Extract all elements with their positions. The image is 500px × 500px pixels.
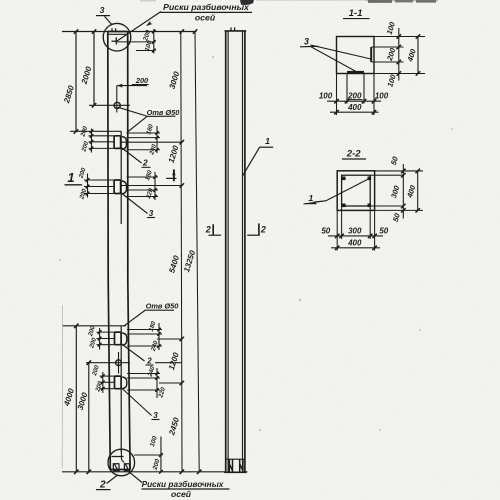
s11 dim row2 — [330, 111, 379, 113]
s22 ext bottom right — [375, 209, 423, 211]
axis riska tick top 1 — [111, 28, 113, 31]
leader plate3 lower — [121, 388, 152, 416]
side view bottom edge — [224, 471, 246, 473]
bottom detail circle — [108, 449, 135, 476]
overall dim 13250 line — [195, 32, 199, 472]
dim line top 200-100 — [153, 29, 155, 54]
svg-text:1-1: 1-1 — [349, 8, 363, 19]
dim 3000 line — [88, 363, 90, 472]
s11 ext right a — [372, 46, 404, 48]
ext line plateB bottom — [121, 185, 182, 187]
dim 4000 line — [75, 326, 77, 472]
rebar dots — [342, 177, 346, 181]
plateA right ext b — [127, 137, 161, 139]
side view inner line left — [227, 31, 229, 472]
ext line plateC center — [157, 338, 182, 340]
s22 ext right — [374, 210, 376, 250]
plate 3 upper — [114, 180, 121, 194]
leader plate3 upper — [121, 193, 148, 214]
plateD left ext b — [100, 381, 115, 383]
s22 ext left — [336, 210, 338, 250]
top extension line — [62, 31, 197, 33]
plateC left ext b — [97, 338, 115, 340]
ext line riska bottom — [134, 454, 163, 456]
label Otv50 top leader — [118, 107, 147, 116]
ext line plateD center — [159, 382, 182, 384]
dim line plateC right — [158, 323, 160, 350]
front view column top edge — [108, 31, 128, 33]
s22 right chain — [402, 164, 404, 219]
leader plate2 lower — [121, 344, 145, 362]
plate2 left ext a — [89, 135, 115, 137]
svg-text:осей: осей — [171, 489, 192, 499]
svg-text:2: 2 — [146, 357, 152, 366]
svg-text:осей: осей — [195, 12, 216, 22]
plateD right ext b — [127, 377, 160, 379]
side view top riska 1 — [230, 27, 232, 31]
s22 dim row2 — [331, 247, 380, 249]
leader 1 to stirrup — [314, 201, 327, 202]
hole bottom h-centerline — [86, 362, 130, 364]
side view foot right — [240, 459, 243, 472]
dim 2850 line — [75, 32, 77, 132]
dim 200 hole underline — [132, 84, 149, 86]
dim line plateA right — [156, 126, 158, 153]
plateC left ext c — [97, 344, 115, 346]
svg-text:200: 200 — [347, 91, 362, 100]
svg-text:2: 2 — [142, 158, 148, 168]
svg-text:2: 2 — [260, 225, 266, 235]
plate edge bracket upper 2 — [122, 137, 127, 150]
s11 dim row1 — [327, 100, 381, 102]
svg-text:3: 3 — [153, 411, 158, 420]
front view column bottom inner line — [112, 456, 124, 458]
top detail circle — [103, 23, 131, 51]
leader riski top — [117, 12, 161, 42]
plateD left ext a — [100, 375, 115, 377]
ext line small top — [136, 50, 156, 52]
s11 right chain — [398, 28, 400, 81]
hole top Otv50 — [114, 102, 120, 108]
svg-text:1: 1 — [265, 136, 270, 146]
front view column right edge — [128, 32, 130, 470]
svg-text:Риски разбивочных: Риски разбивочных — [163, 2, 250, 12]
svg-text:100: 100 — [319, 91, 333, 100]
text riski bottom underline — [142, 488, 230, 490]
s22 ext stirrup l — [341, 206, 343, 239]
text riski top underline — [161, 11, 253, 13]
plate alignment line lower — [120, 326, 122, 452]
hole bottom v-centerline — [118, 352, 120, 374]
s22 right overall — [417, 171, 419, 210]
leader 3 to right plate — [311, 45, 372, 59]
label Otv50 top underline — [146, 115, 176, 117]
section 1-1 right plate line — [370, 47, 372, 62]
plate 2 lower — [115, 332, 122, 345]
chain dim line right — [181, 32, 182, 472]
s22 ext right a — [370, 174, 403, 176]
svg-text:50: 50 — [379, 226, 388, 235]
ext line plateA center — [121, 141, 182, 143]
s22 dim row1 — [328, 235, 383, 237]
plateD left ext c — [100, 388, 115, 390]
bottom baseline — [62, 471, 248, 473]
dim 200 hole line — [117, 85, 147, 87]
svg-text:2: 2 — [99, 480, 106, 491]
label 1 side view leader — [243, 147, 260, 176]
svg-text:1: 1 — [67, 170, 74, 185]
s22 ext stirrup r — [369, 206, 371, 239]
plate 3 lower — [115, 376, 122, 389]
scan specks — [59, 56, 453, 431]
plate2 left ext c — [89, 147, 115, 149]
svg-text:100: 100 — [375, 91, 389, 100]
side view foot left — [229, 459, 232, 472]
plate3 left ext a — [84, 179, 114, 181]
s11 ext plate r — [363, 73, 365, 103]
side view left edge — [225, 31, 227, 472]
axis riska tick top 2 — [115, 28, 117, 31]
hole top v-line — [116, 86, 118, 113]
s22 ext top right — [375, 170, 423, 172]
s22 ext right b — [370, 205, 403, 207]
plate edge bracket lower 2 — [122, 333, 127, 345]
svg-text:3: 3 — [304, 36, 309, 46]
dim line plateB right — [154, 172, 156, 200]
hole bottom Otv50 — [116, 360, 122, 366]
side view right edge — [244, 31, 246, 472]
leader label3 top — [105, 16, 112, 24]
plateB right ext b — [127, 189, 159, 191]
leader label2 bottom — [107, 476, 118, 484]
plateA right ext c — [127, 149, 161, 151]
plate3 left ext b — [84, 186, 114, 188]
label Otv50 bottom leader — [124, 310, 146, 326]
leader riski bottom — [129, 472, 142, 483]
s11 ext left — [336, 74, 338, 116]
s11 right overall — [417, 37, 419, 74]
svg-text:2: 2 — [205, 224, 211, 234]
front view column bottom edge — [110, 469, 130, 471]
leader plate2 upper — [121, 147, 142, 163]
dim line plateD right — [156, 368, 158, 398]
svg-text:Отв Ø50: Отв Ø50 — [146, 302, 180, 311]
svg-text:400: 400 — [347, 239, 362, 248]
bottom axis mark — [121, 450, 124, 462]
leader 3 to bottom plate — [311, 47, 357, 72]
svg-text:50: 50 — [321, 226, 330, 235]
plate edge bracket upper 3 — [122, 181, 127, 194]
svg-text:3: 3 — [149, 209, 154, 218]
plateC left ext a — [97, 331, 115, 333]
chain ticks — [180, 29, 184, 33]
svg-text:2-2: 2-2 — [346, 148, 362, 159]
s11 ext plate l — [346, 73, 348, 103]
scan artifact band top — [140, 0, 438, 5]
side view bottom inner line — [226, 458, 245, 460]
ext line 4000 top — [62, 325, 126, 327]
plateA right ext a — [127, 132, 161, 134]
svg-text:300: 300 — [348, 226, 362, 235]
s11 ext right — [373, 74, 375, 116]
ext line axis mark right — [116, 41, 155, 43]
dim line plateD left — [102, 372, 104, 393]
ext line hole bottom — [155, 362, 182, 364]
s11 ext top right — [374, 36, 425, 38]
hole top h-centerline — [89, 104, 130, 106]
svg-text:400: 400 — [347, 103, 362, 112]
section mark 1 right — [173, 169, 175, 181]
side view top riska 2 — [234, 27, 236, 31]
plateD right ext a — [127, 373, 160, 375]
svg-text:3: 3 — [100, 5, 105, 15]
plateB right ext c — [127, 196, 159, 198]
svg-text:200: 200 — [135, 76, 149, 85]
label Otv50 bottom underline — [145, 309, 174, 311]
plate edge bracket lower 3 — [122, 377, 127, 389]
bottom foot mark left — [113, 464, 119, 471]
dim line plate3 left — [87, 174, 89, 198]
plate alignment line upper — [120, 131, 122, 224]
section 2-2 stirrup — [342, 175, 371, 206]
axis mark in top detail — [115, 37, 117, 44]
front view column top second line — [108, 33, 128, 35]
dim line plateC left — [99, 328, 101, 350]
dim line plate2 left — [91, 129, 93, 153]
plateD right ext c — [127, 389, 160, 391]
plate2 left ext b — [89, 141, 115, 143]
dim line bottom 100-200 — [160, 437, 162, 472]
side view interior wash — [224, 31, 245, 473]
scan fold line — [61, 305, 63, 468]
plateC right ext b — [127, 333, 162, 335]
side view top edge — [225, 30, 247, 32]
section mark 2 right — [247, 234, 260, 236]
side view inner line right — [242, 31, 244, 472]
s11 ext right b — [372, 61, 404, 63]
ext line at plateA top — [70, 130, 121, 132]
front view column left edge — [108, 32, 111, 470]
svg-text:1: 1 — [309, 193, 314, 203]
plateC right ext a — [127, 329, 162, 331]
plate3 left ext c — [84, 193, 114, 195]
svg-text:Риски разбивочных: Риски разбивочных — [142, 479, 224, 489]
dim 2000 line — [93, 32, 95, 106]
s11 ext bottom right — [374, 73, 425, 75]
section 2-2 outer square — [337, 171, 374, 211]
section 1-1 bottom plate — [347, 71, 364, 73]
section 1-1 square — [337, 37, 375, 74]
plateC right ext c — [127, 345, 162, 347]
plate 2 upper — [114, 136, 121, 149]
bottom foot mark right — [124, 464, 129, 471]
plateB right ext a — [127, 176, 159, 178]
